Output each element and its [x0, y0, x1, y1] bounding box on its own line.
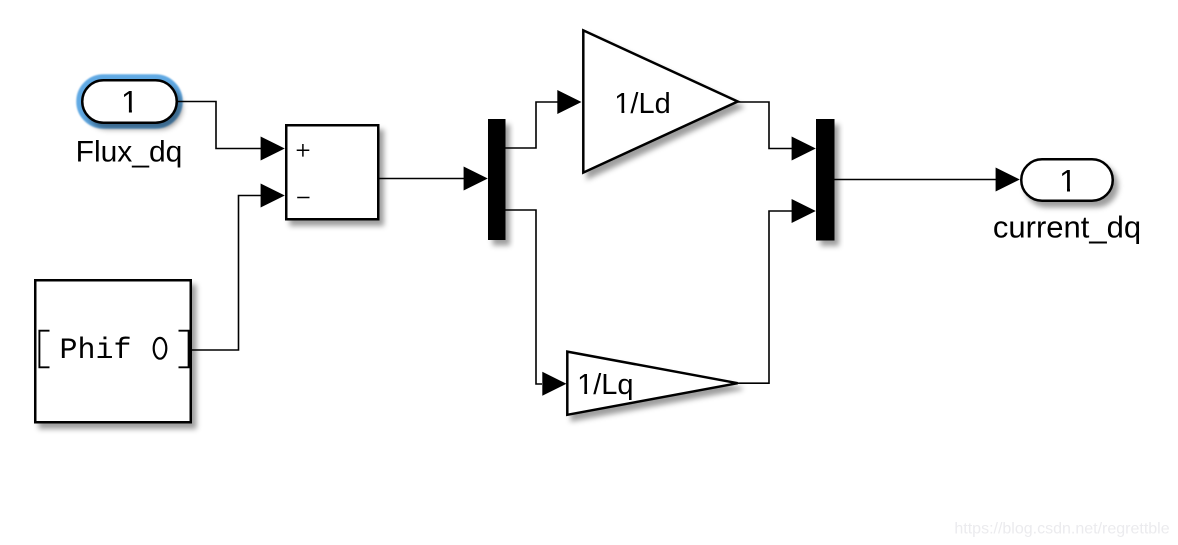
mux bar	[816, 119, 835, 241]
arrowhead into outport	[996, 168, 1020, 192]
svg-text:1: 1	[121, 84, 139, 120]
wire constant to sum - input	[192, 196, 262, 351]
demux bar	[488, 119, 506, 240]
svg-text:1/Lq: 1/Lq	[577, 369, 633, 401]
gain block 1/Ld	[583, 30, 737, 172]
svg-text:current_dq: current_dq	[993, 209, 1141, 244]
sum minus sign	[297, 197, 309, 199]
svg-text:https://blog.csdn.net/regrettb: https://blog.csdn.net/regrettble	[954, 521, 1169, 538]
inport block "1" (Flux_dq)	[82, 80, 177, 123]
wire gain 1/Lq to mux in2	[738, 211, 792, 383]
mask: remove foot serif of digit 1 (inport)	[122, 110, 129, 115]
constant block [Phif 0]	[35, 280, 191, 422]
mask: remove foot serif of digit 1 (gain 1/Ld)	[615, 110, 621, 114]
svg-text:1: 1	[1059, 162, 1077, 198]
wire mux to outport	[835, 179, 997, 181]
constant right bracket	[179, 331, 189, 368]
wire gain 1/Ld to mux in1	[738, 102, 792, 149]
mask: remove foot serif of digit 1 (gain 1/Lq)	[578, 391, 584, 395]
wire demux out2 to gain 1/Lq	[506, 210, 543, 384]
gain block 1/Lq	[567, 352, 737, 415]
arrowhead into mux in2	[792, 199, 816, 223]
arrowhead into gain 1/Lq	[542, 372, 566, 396]
mask: remove foot serif of digit 1 (outport)	[1060, 188, 1067, 193]
inport selection highlight (blue ring)	[80, 78, 180, 126]
arrowhead into mux in1	[792, 137, 816, 161]
constant value zero glyph	[154, 338, 167, 359]
wire demux out1 to gain 1/Ld	[506, 102, 559, 148]
arrowhead into sum - input	[261, 184, 285, 208]
svg-text:Flux_dq: Flux_dq	[76, 135, 183, 168]
outport block "1" (current_dq)	[1021, 159, 1113, 201]
constant left bracket	[39, 331, 49, 368]
sum block	[286, 125, 378, 219]
arrowhead into sum + input	[261, 137, 285, 161]
arrowhead into demux	[464, 167, 488, 191]
wire inport to sum + input	[177, 102, 262, 149]
svg-text:1/Ld: 1/Ld	[614, 88, 670, 120]
sum plus sign	[297, 144, 310, 157]
arrowhead into gain 1/Ld	[557, 90, 581, 114]
wire sum output to demux	[380, 178, 465, 180]
svg-text:Phif: Phif	[60, 334, 132, 368]
